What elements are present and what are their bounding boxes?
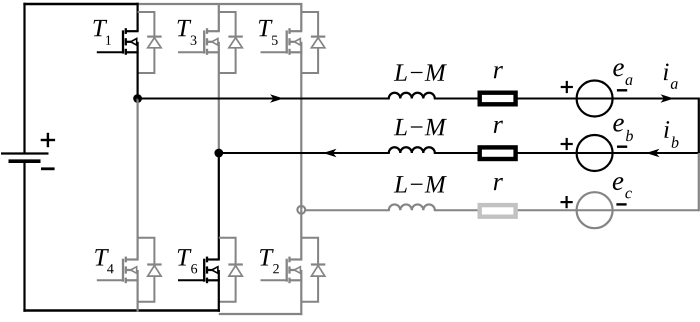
emf e_c - sign xyxy=(616,203,626,205)
wire: right bus (phase b to c, gray) xyxy=(698,153,700,211)
resistor r (phase b) xyxy=(480,147,516,159)
label T1 xyxy=(93,20,110,45)
wire: phase-a node to T4 drain xyxy=(137,99,139,260)
emf e_a - sign xyxy=(617,89,627,91)
battery V - negative plate xyxy=(9,159,41,163)
wire: battery top to top rail xyxy=(23,3,25,154)
transistor T6 xyxy=(178,257,220,284)
wire: T5 source to phase-c node xyxy=(300,52,302,210)
wire: phase b (node to inductor) xyxy=(219,152,390,154)
label T4 xyxy=(95,249,113,273)
emf e_a + sign xyxy=(561,81,573,93)
wire: T3 drain from top rail xyxy=(218,4,220,31)
emf source e_b (circle) xyxy=(577,135,613,171)
battery V (DC source) - positive plate xyxy=(1,152,49,154)
inductor L-M (phase c) xyxy=(389,204,435,210)
wire: T3 source to phase-b node xyxy=(218,52,220,153)
label r (phase c) xyxy=(494,178,503,190)
wire: phase a (inductor to bus) xyxy=(434,98,699,100)
label i_b xyxy=(664,121,678,148)
wire: battery bottom to bottom rail xyxy=(23,161,25,312)
wire: T2 source to gray bottom rail xyxy=(300,280,302,315)
emf e_c + sign xyxy=(561,196,573,208)
battery - label xyxy=(41,167,55,170)
inductor L-M (phase b) xyxy=(389,147,435,153)
label T6 xyxy=(178,249,197,273)
label T3 xyxy=(178,20,197,45)
inductor L-M (phase a) xyxy=(389,93,435,99)
wire: T1 drain from top rail xyxy=(137,3,139,32)
node c (open circle) xyxy=(297,206,305,214)
transistor T3 xyxy=(178,28,220,55)
label T5 xyxy=(259,20,278,45)
wire: phase a (node to inductor) xyxy=(138,98,390,100)
label i_a xyxy=(664,64,678,89)
wire: phase c (node to inductor) xyxy=(305,209,390,211)
resistor r (phase c) xyxy=(480,205,516,217)
transistor T2 xyxy=(261,257,303,284)
wire: T1 source to phase-a node xyxy=(137,52,139,98)
label e_a xyxy=(613,63,632,85)
diode D6 (antiparallel to T6) xyxy=(219,238,243,302)
label L-M (phase c) xyxy=(394,176,447,192)
node a (junction dot) xyxy=(133,94,142,103)
wire: T6 source to bottom rail xyxy=(218,280,220,312)
wire: top rail (gray segment) xyxy=(138,3,303,5)
wire: phase-c node to T2 drain xyxy=(300,210,302,260)
diode D1 (antiparallel to T1) xyxy=(138,12,162,73)
arrow: phase b current (left) xyxy=(323,149,337,157)
wire: top rail (black segment) xyxy=(23,3,138,6)
wire: phase b (inductor to bus) xyxy=(434,152,699,154)
diode D3 (antiparallel to T3) xyxy=(219,12,243,73)
diode D5 (antiparallel to T5) xyxy=(301,12,325,73)
label L-M (phase a) xyxy=(394,64,447,80)
battery + label xyxy=(41,133,55,147)
label r (phase a) xyxy=(494,66,503,78)
transistor T1 xyxy=(97,28,139,55)
node b (junction dot) xyxy=(214,149,223,158)
arrow: phase a current (left) xyxy=(270,94,284,102)
wire: phase-b node to T6 drain xyxy=(218,153,220,260)
wire: bottom rail (gray segment) xyxy=(219,313,303,315)
label e_b xyxy=(613,119,633,141)
arrow: phase b current (right) xyxy=(646,149,660,157)
transistor T4 xyxy=(97,257,139,284)
label L-M (phase b) xyxy=(394,119,447,135)
wire: bottom rail (black segment) xyxy=(23,309,220,312)
emf e_b + sign xyxy=(561,138,573,150)
emf e_b - sign xyxy=(617,145,627,147)
arrow: phase a current (right) xyxy=(661,94,675,102)
wire: right bus (phase a to b, black) xyxy=(698,98,700,154)
wire: T4 source to bottom rail xyxy=(137,280,139,311)
wire: phase c (inductor to bus) xyxy=(434,209,699,211)
emf source e_c (circle) xyxy=(577,192,613,228)
emf source e_a (circle) xyxy=(577,81,613,117)
transistor T5 xyxy=(261,28,303,55)
wire: T5 drain from top rail xyxy=(300,4,302,31)
resistor r (phase a) xyxy=(480,93,516,105)
label r (phase b) xyxy=(494,121,503,133)
label e_c xyxy=(613,177,632,198)
diode D2 (antiparallel to T2) xyxy=(301,238,325,302)
label T2 xyxy=(260,249,279,273)
diode D4 (antiparallel to T4) xyxy=(138,238,162,302)
